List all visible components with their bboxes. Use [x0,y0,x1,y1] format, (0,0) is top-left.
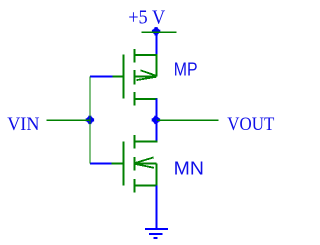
MN channel segment middle [134,157,136,171]
MP gate pin stub [112,75,123,77]
node VDD junction dot [152,27,160,35]
MP bulk arrow barb lower (points right) [137,77,156,80]
MN bulk lead [134,163,157,165]
MP bottom (drain) lead [134,98,158,100]
+5V rail wire [142,31,177,33]
transistor MP (PMOS) [112,49,158,106]
MP bulk arrow barb upper (points right) [141,70,156,75]
MN top (drain) lead [134,141,158,143]
wire VIN vertical bus (green) [89,76,91,163]
MN channel segment bottom [134,179,136,193]
wire VOUT horizontal (green) [157,119,219,121]
MN gate pin stub [112,163,123,165]
MN channel segment top [134,135,136,149]
MP top (source) lead [134,54,158,56]
MP channel segment top [134,49,136,63]
MN bulk arrow barb upper (points left) [135,157,153,163]
transistor MN (NMOS) [112,135,158,193]
wire VDD dot to MP top (blue) [156,33,158,55]
MP channel segment middle [134,70,136,85]
svg-text:VIN: VIN [7,114,40,135]
svg-text:+5 V: +5 V [128,7,165,28]
node VIN junction dot [86,116,94,124]
svg-text:VOUT: VOUT [227,114,274,135]
wire VIN node to MP gate (blue segment) [90,75,113,77]
ground bar long [145,228,168,230]
MP channel segment bottom [134,92,136,106]
wire MN source to ground (blue) [156,185,158,229]
MN gate bar [123,141,125,185]
MP bulk lead [134,75,157,77]
wire VIN node to MN gate (blue segment) [90,162,113,164]
node VOUT junction dot [152,116,160,124]
ground bar short [154,237,158,239]
ground symbol [145,229,168,238]
wire MP drain to MN drain through VOUT node (blue) [156,99,158,142]
MN right vertical (bulk-source tie) [156,164,158,186]
MN bulk arrow barb lower (points left) [135,164,154,168]
wire VIN horizontal (green) [47,119,91,121]
MP gate bar [123,55,125,99]
svg-text:MN: MN [174,158,204,178]
MN bottom (source) lead [134,185,158,187]
MP right vertical (source-bulk tie) [156,55,158,76]
svg-text:MP: MP [174,59,198,79]
ground bar middle [149,233,163,235]
